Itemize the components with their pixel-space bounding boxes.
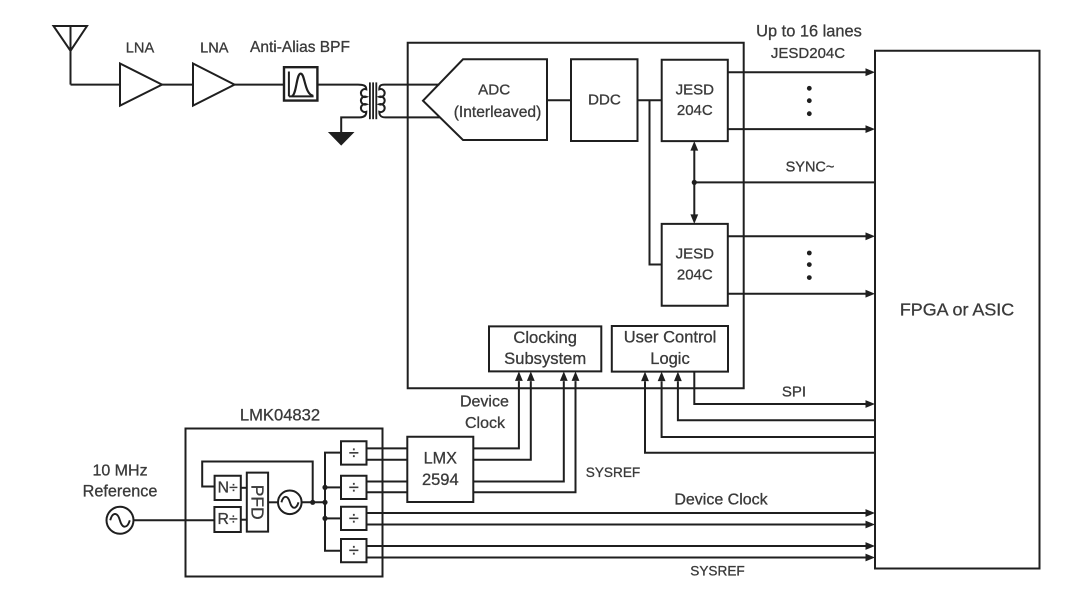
- svg-text:JESD204C: JESD204C: [771, 45, 845, 62]
- svg-text:10 MHz: 10 MHz: [92, 462, 147, 479]
- svg-text:LMX: LMX: [424, 449, 457, 467]
- svg-text:÷: ÷: [349, 443, 359, 463]
- svg-text:FPGA or ASIC: FPGA or ASIC: [900, 300, 1014, 320]
- svg-text:204C: 204C: [677, 266, 713, 283]
- svg-text:SYSREF: SYSREF: [690, 563, 744, 578]
- svg-text:R÷: R÷: [218, 511, 238, 528]
- svg-text:÷: ÷: [349, 508, 359, 528]
- svg-text:SPI: SPI: [782, 383, 806, 400]
- svg-text:2594: 2594: [422, 471, 459, 489]
- svg-text:ADC: ADC: [478, 81, 510, 98]
- svg-text:Subsystem: Subsystem: [504, 349, 586, 368]
- svg-text:204C: 204C: [677, 102, 713, 119]
- svg-text:JESD: JESD: [676, 246, 715, 263]
- svg-text:LNA: LNA: [200, 40, 229, 56]
- svg-text:PFD: PFD: [247, 485, 267, 520]
- svg-text:Up to 16 lanes: Up to 16 lanes: [756, 22, 862, 40]
- svg-text:JESD: JESD: [676, 81, 715, 98]
- svg-text:(Interleaved): (Interleaved): [454, 104, 542, 121]
- svg-text:SYSREF: SYSREF: [586, 465, 640, 480]
- svg-text:Anti-Alias BPF: Anti-Alias BPF: [250, 39, 350, 56]
- svg-text:Logic: Logic: [650, 350, 689, 368]
- svg-text:Clocking: Clocking: [513, 328, 577, 347]
- svg-text:SYNC~: SYNC~: [786, 159, 835, 175]
- svg-text:LMK04832: LMK04832: [240, 406, 320, 425]
- svg-text:User Control: User Control: [624, 329, 717, 347]
- svg-text:N÷: N÷: [218, 479, 238, 496]
- svg-text:Device: Device: [460, 393, 509, 410]
- svg-text:Clock: Clock: [465, 415, 506, 432]
- svg-text:DDC: DDC: [588, 91, 621, 108]
- svg-text:LNA: LNA: [126, 40, 155, 56]
- svg-text:Device Clock: Device Clock: [674, 491, 768, 508]
- svg-text:÷: ÷: [349, 541, 359, 561]
- svg-text:÷: ÷: [349, 477, 359, 497]
- svg-text:Reference: Reference: [83, 482, 158, 500]
